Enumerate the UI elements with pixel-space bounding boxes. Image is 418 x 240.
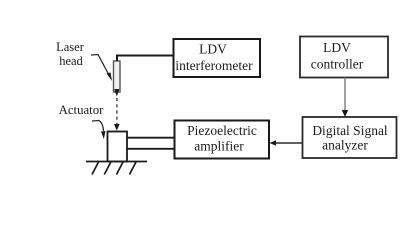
actuator bbox=[108, 132, 128, 162]
block LDV controller bbox=[300, 37, 388, 78]
svg-text:analyzer: analyzer bbox=[322, 138, 368, 153]
leader arrow to laser head bbox=[91, 55, 112, 82]
label "Actuator" bbox=[59, 103, 105, 117]
svg-text:amplifier: amplifier bbox=[194, 139, 244, 154]
wire laser head to LDV interferometer bbox=[117, 56, 173, 62]
block Piezoelectric amplifier bbox=[175, 121, 270, 159]
wire actuator to amplifier (top) bbox=[127, 137, 175, 139]
svg-text:Laser: Laser bbox=[56, 40, 85, 54]
label "Laser head" bbox=[56, 40, 85, 68]
svg-text:head: head bbox=[59, 54, 83, 68]
svg-text:LDV: LDV bbox=[199, 42, 227, 57]
svg-text:interferometer: interferometer bbox=[175, 58, 253, 73]
laser head bbox=[114, 61, 121, 92]
svg-text:Piezoelectric: Piezoelectric bbox=[187, 123, 257, 138]
leader arrow to actuator bbox=[92, 121, 106, 140]
svg-text:LDV: LDV bbox=[323, 40, 351, 55]
wire analyzer to amplifier with arrow bbox=[270, 140, 303, 146]
ground bbox=[86, 162, 147, 175]
block LDV interferometer bbox=[174, 39, 261, 77]
svg-text:Actuator: Actuator bbox=[59, 103, 105, 117]
svg-text:controller: controller bbox=[311, 57, 364, 72]
laser beam (dashed, with arrowheads) bbox=[114, 89, 120, 131]
block Digital Signal analyzer bbox=[303, 117, 397, 158]
svg-text:Digital Signal: Digital Signal bbox=[312, 123, 388, 138]
wire actuator to amplifier (bottom) bbox=[127, 148, 175, 150]
wire controller to analyzer with arrow bbox=[342, 78, 348, 118]
